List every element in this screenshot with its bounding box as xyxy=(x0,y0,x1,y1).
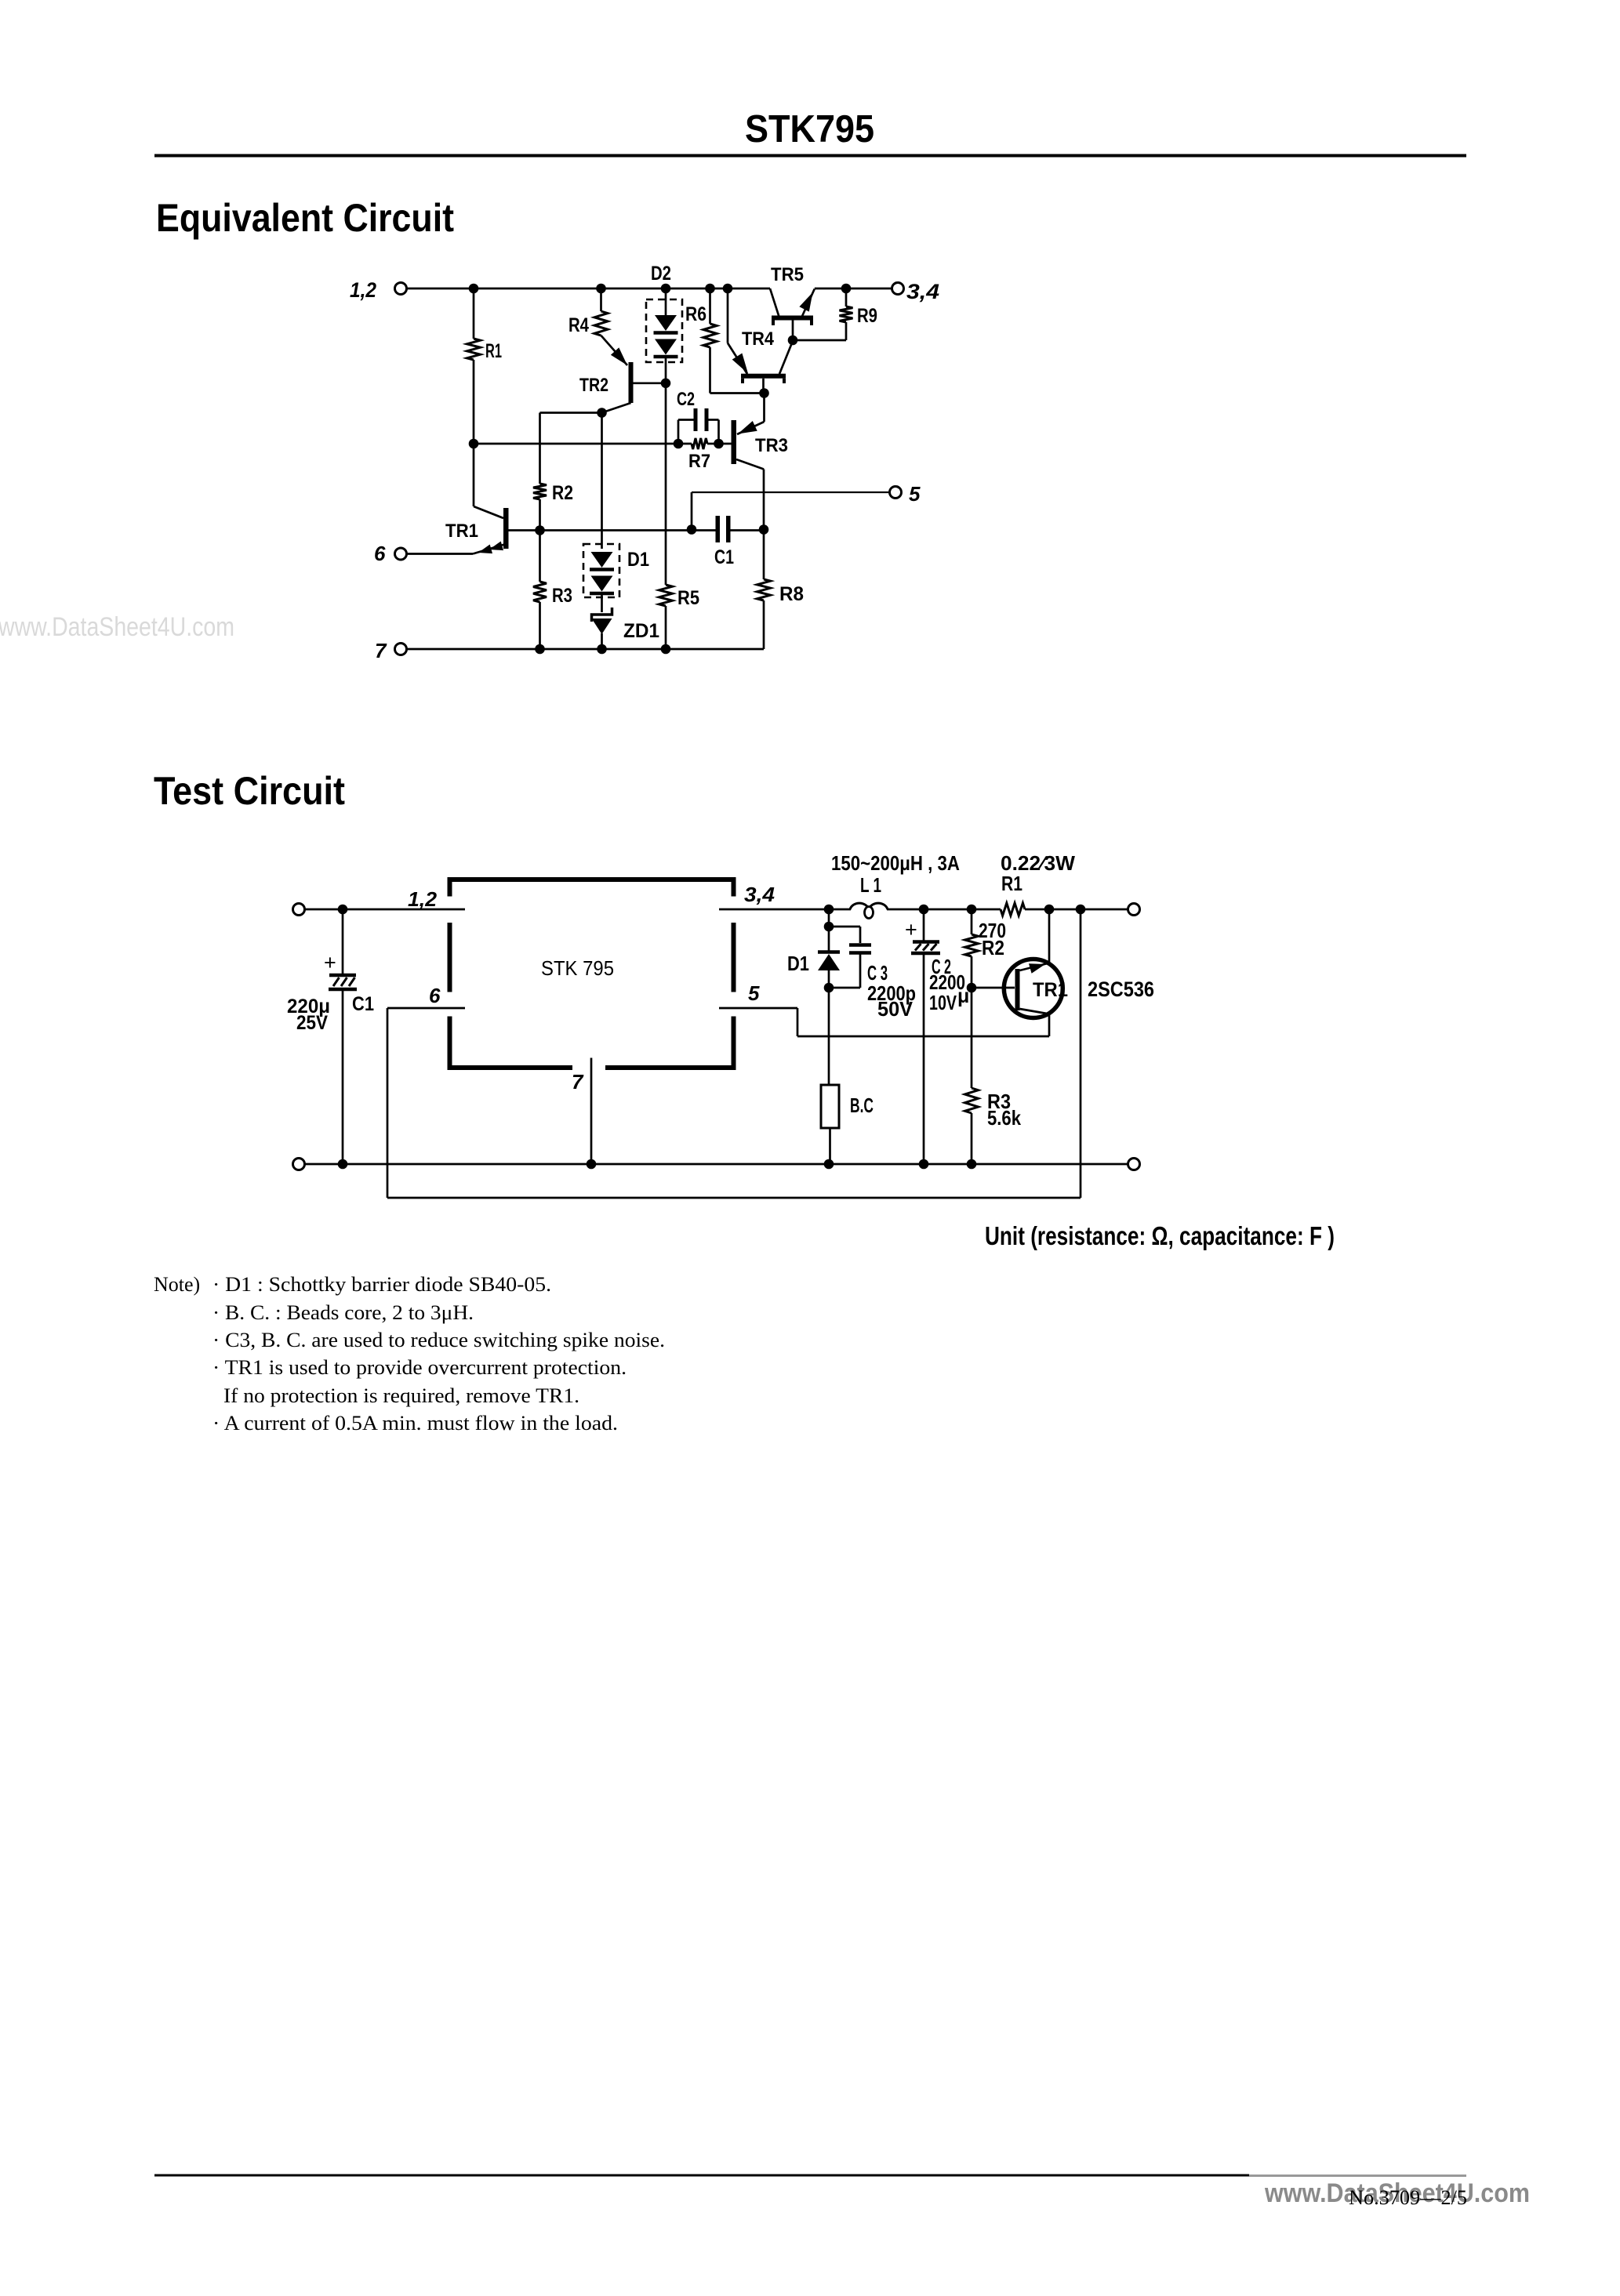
svg-text:5.6k: 5.6k xyxy=(987,1106,1021,1130)
svg-text:C2: C2 xyxy=(677,389,695,410)
svg-text:R3: R3 xyxy=(552,585,572,607)
svg-text:ZD1: ZD1 xyxy=(623,620,659,642)
svg-text:R6: R6 xyxy=(685,303,706,325)
svg-text:R2: R2 xyxy=(982,936,1004,959)
svg-text:+: + xyxy=(324,951,336,974)
svg-text:TR4: TR4 xyxy=(742,328,775,350)
svg-text:3,4: 3,4 xyxy=(906,280,939,303)
svg-text:2SC536: 2SC536 xyxy=(1088,978,1154,1001)
svg-text:R1: R1 xyxy=(1001,872,1022,895)
svg-text:C1: C1 xyxy=(714,546,734,568)
svg-text:R7: R7 xyxy=(688,451,710,472)
svg-text:R9: R9 xyxy=(857,305,877,327)
svg-text:Test Circuit: Test Circuit xyxy=(154,769,345,813)
svg-text:R2: R2 xyxy=(552,482,573,504)
svg-text:D2: D2 xyxy=(651,263,671,285)
svg-text:7: 7 xyxy=(572,1070,584,1094)
svg-text:Unit (resistance: Ω, capacitan: Unit (resistance: Ω, capacitance: F ) xyxy=(985,1221,1335,1250)
svg-text:TR1: TR1 xyxy=(445,520,478,542)
svg-text:7: 7 xyxy=(375,639,387,662)
svg-text:R1: R1 xyxy=(485,340,502,362)
svg-text:B.C: B.C xyxy=(850,1094,874,1117)
svg-text:D1: D1 xyxy=(787,952,809,975)
svg-text:STK 795: STK 795 xyxy=(541,956,614,980)
svg-text:6: 6 xyxy=(374,542,386,565)
svg-text:L 1: L 1 xyxy=(860,873,881,897)
svg-text:www.DataSheet4U.com: www.DataSheet4U.com xyxy=(0,612,234,642)
svg-text:R8: R8 xyxy=(779,583,804,605)
svg-text:5: 5 xyxy=(909,482,921,506)
svg-text:1,2: 1,2 xyxy=(408,887,438,911)
svg-text:STK795: STK795 xyxy=(745,108,874,151)
svg-text:· D1 : Schottky barrier diode: · D1 : Schottky barrier diode SB40-05. xyxy=(212,1273,551,1296)
svg-text:6: 6 xyxy=(429,984,441,1007)
svg-text:· B. C. : Beads core, 2 to 3μH: · B. C. : Beads core, 2 to 3μH. xyxy=(212,1301,474,1324)
svg-text:50V: 50V xyxy=(877,997,914,1021)
svg-text:+: + xyxy=(905,918,917,941)
svg-text:Note): Note) xyxy=(154,1273,200,1296)
svg-text:TR3: TR3 xyxy=(755,435,788,456)
svg-text:C1: C1 xyxy=(352,993,374,1015)
svg-text:TR1: TR1 xyxy=(1033,979,1068,1001)
svg-text:5: 5 xyxy=(748,981,760,1005)
svg-text:TR2: TR2 xyxy=(579,375,608,396)
svg-text:· C3, B. C. are used to reduce: · C3, B. C. are used to reduce switching… xyxy=(212,1329,665,1351)
svg-text:No.3709—2/5: No.3709—2/5 xyxy=(1349,2186,1467,2209)
svg-text:Equivalent Circuit: Equivalent Circuit xyxy=(156,196,454,240)
svg-text:R5: R5 xyxy=(677,587,699,609)
svg-text:If no protection is required,: If no protection is required, remove TR1… xyxy=(223,1384,579,1407)
svg-text:25V: 25V xyxy=(296,1012,328,1034)
svg-text:1,2: 1,2 xyxy=(350,278,376,302)
svg-text:D1: D1 xyxy=(627,549,649,571)
svg-text:TR5: TR5 xyxy=(771,264,804,285)
svg-text:150~200μH , 3A: 150~200μH , 3A xyxy=(831,851,960,875)
svg-text:R4: R4 xyxy=(568,314,589,336)
svg-text:3,4: 3,4 xyxy=(744,883,775,906)
svg-text:· TR1 is used to provide overc: · TR1 is used to provide overcurrent pro… xyxy=(212,1356,627,1379)
svg-text:· A current of 0.5A min. must: · A current of 0.5A min. must flow in th… xyxy=(212,1412,618,1435)
svg-text:10V: 10V xyxy=(929,991,957,1014)
